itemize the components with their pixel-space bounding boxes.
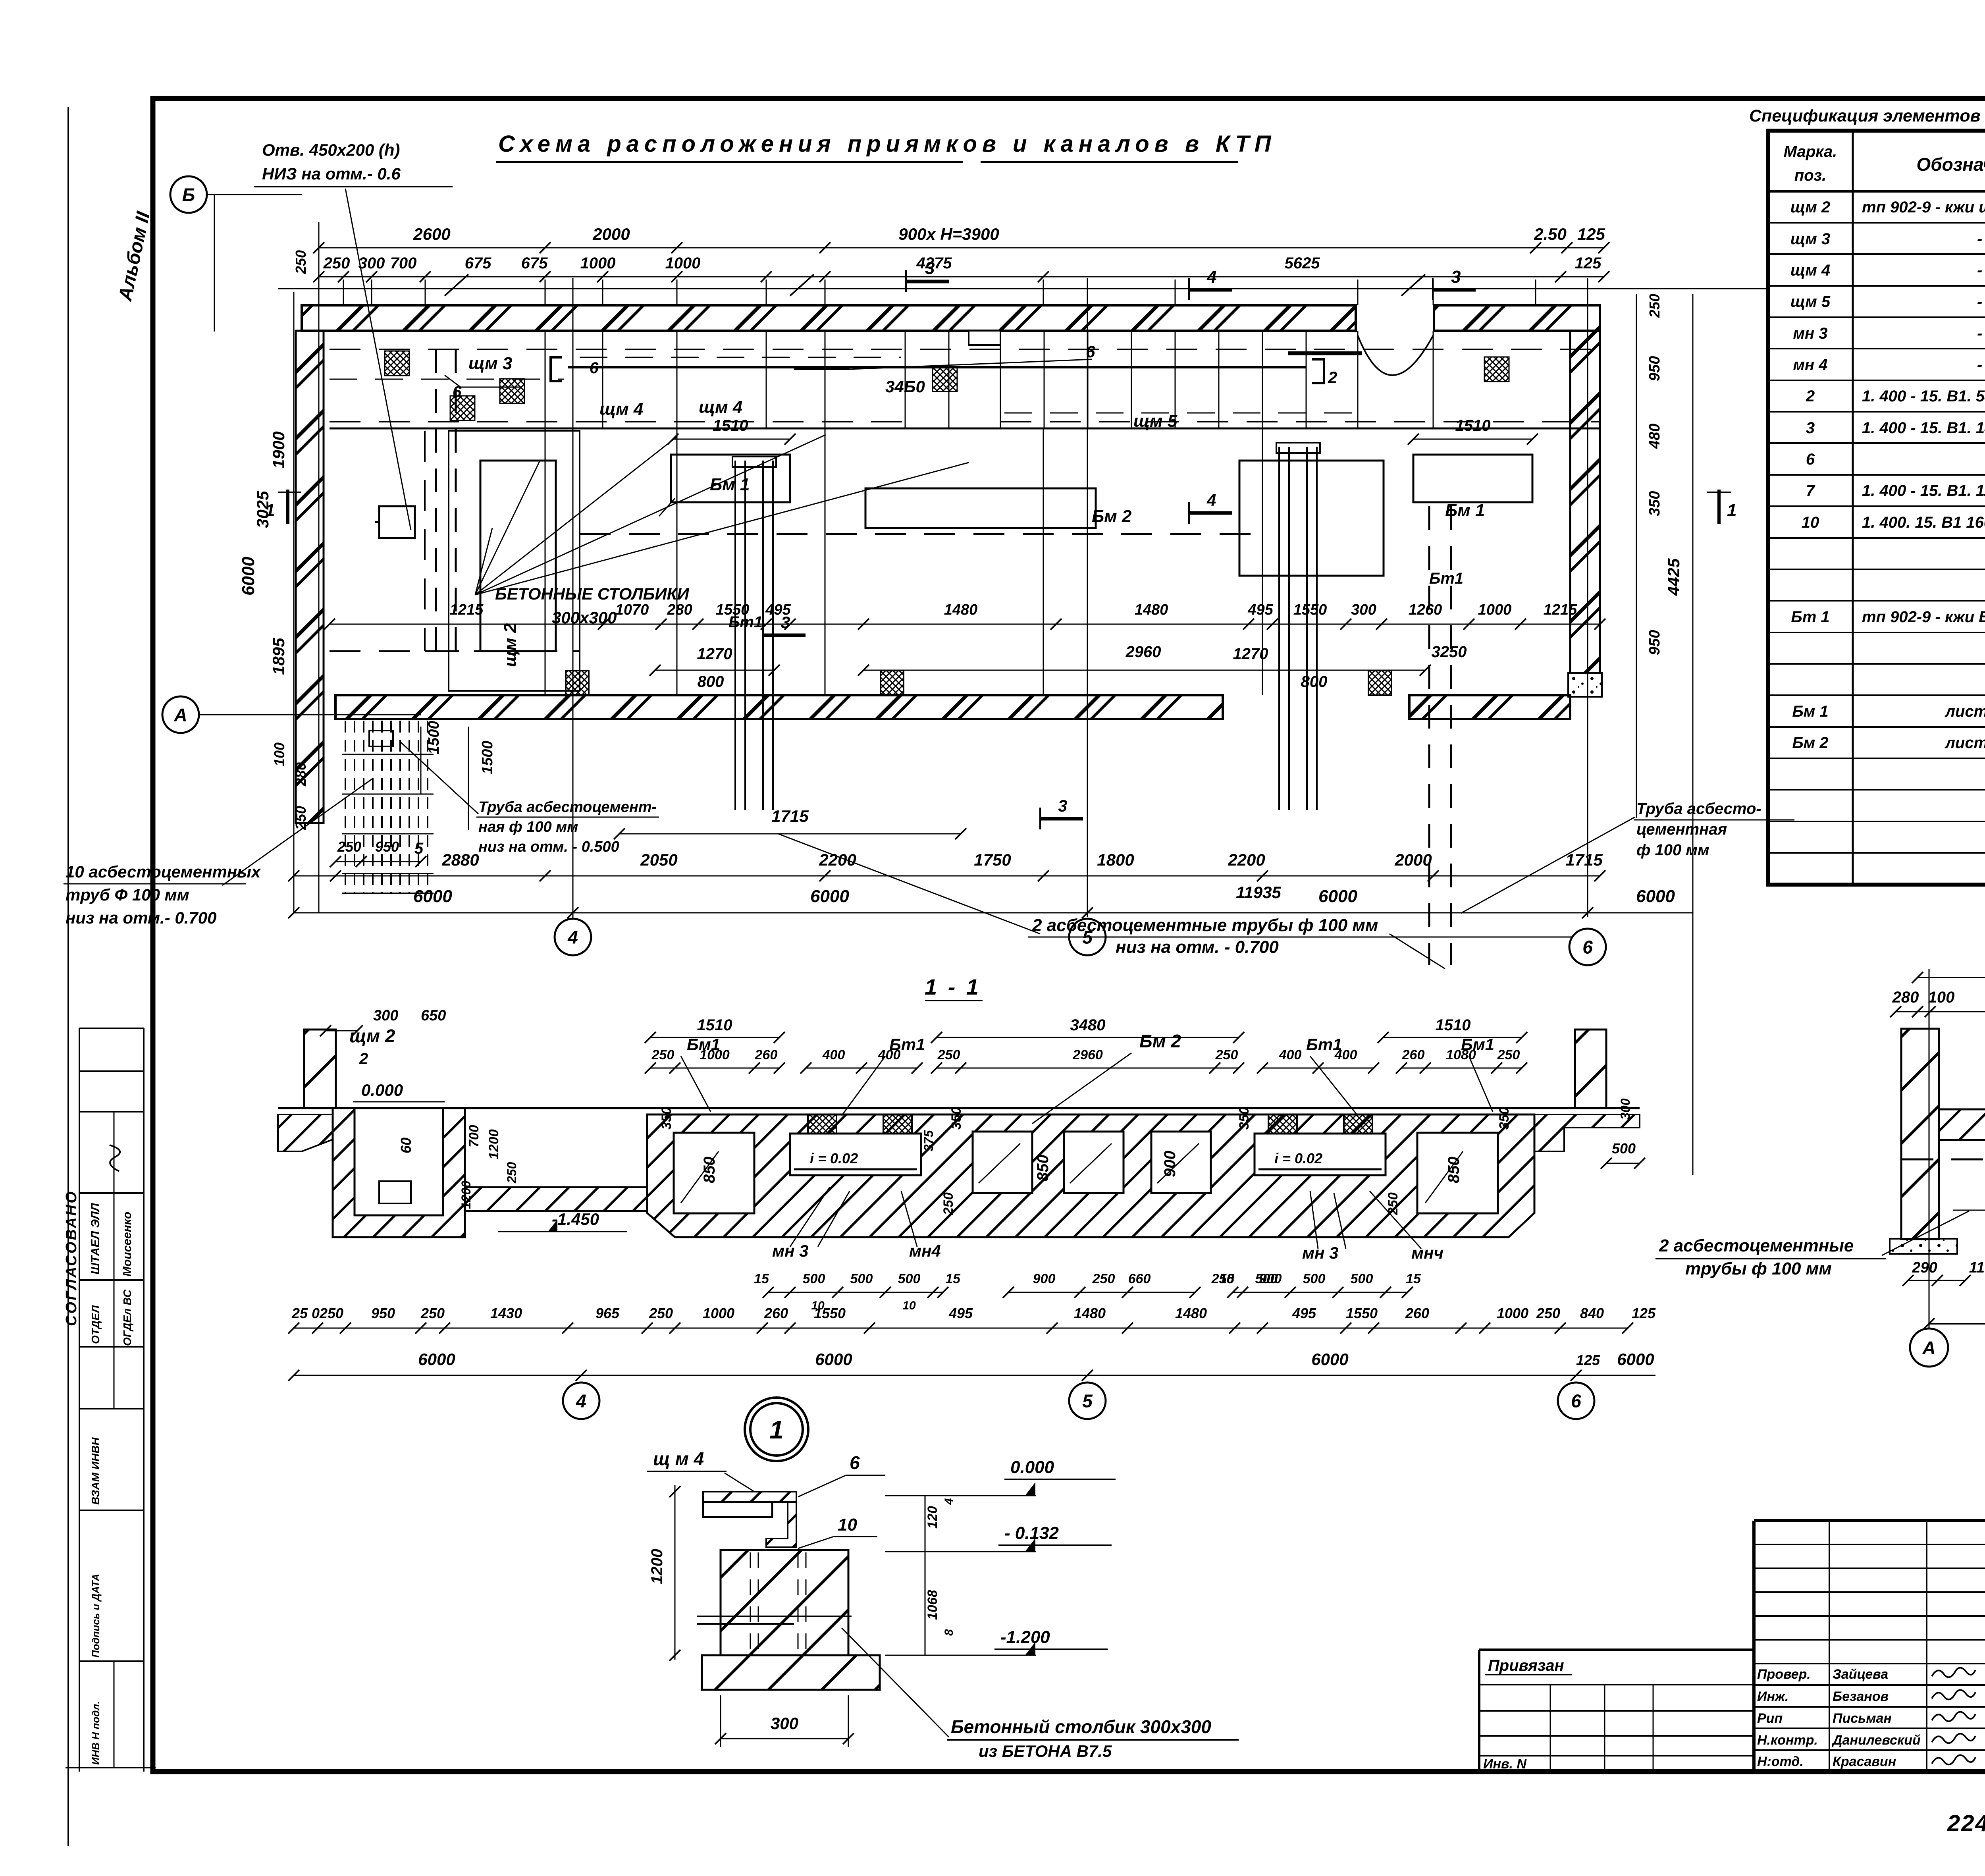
section mid pits white <box>973 1132 1032 1193</box>
svg-text:250: 250 <box>937 1047 960 1062</box>
svg-text:500: 500 <box>1255 1271 1278 1286</box>
svg-text:1900: 1900 <box>269 432 288 469</box>
svg-text:4: 4 <box>567 927 578 948</box>
svg-text:250: 250 <box>1536 1305 1560 1321</box>
svg-text:ная ф 100 мм: ная ф 100 мм <box>478 819 578 835</box>
svg-text:щм 2: щм 2 <box>1790 199 1830 216</box>
svg-text:260: 260 <box>764 1305 788 1321</box>
svg-text:250: 250 <box>1497 1047 1520 1062</box>
svg-text:Бетонный столбик 300х300: Бетонный столбик 300х300 <box>951 1716 1211 1737</box>
svg-text:Бм 2: Бм 2 <box>1792 734 1828 752</box>
svg-text:495: 495 <box>948 1305 973 1321</box>
svg-text:280: 280 <box>1892 989 1919 1006</box>
svg-text:1 - 1: 1 - 1 <box>925 974 981 999</box>
binding box <box>1479 1648 1754 1651</box>
dim 1715 bottom <box>619 833 961 835</box>
svg-text:400: 400 <box>1334 1047 1357 1062</box>
section bottom dim row small <box>768 1292 943 1293</box>
svg-text:1: 1 <box>769 1415 784 1444</box>
svg-text:Бм 1: Бм 1 <box>1792 703 1828 720</box>
svg-text:15: 15 <box>754 1271 769 1286</box>
svg-text:щ м 4: щ м 4 <box>653 1448 704 1469</box>
svg-text:1000: 1000 <box>700 1047 730 1062</box>
svg-text:1510: 1510 <box>697 1016 732 1034</box>
svg-text:3480: 3480 <box>1070 1016 1106 1034</box>
svg-text:мн 4: мн 4 <box>1793 356 1827 374</box>
svg-text:СОГЛАСОВАНО: СОГЛАСОВАНО <box>63 1190 80 1326</box>
svg-text:650: 650 <box>421 1007 446 1024</box>
svg-text:350: 350 <box>949 1107 964 1130</box>
section top dims row2 <box>650 1068 779 1069</box>
pipe cluster Bt1 left <box>734 461 736 810</box>
svg-text:10: 10 <box>838 1515 857 1535</box>
svg-text:Данилевский: Данилевский <box>1831 1733 1921 1748</box>
svg-text:4: 4 <box>1206 267 1216 287</box>
svg-text:2200: 2200 <box>1228 850 1265 869</box>
svg-text:1550: 1550 <box>1293 602 1327 618</box>
svg-text:1000: 1000 <box>580 255 616 272</box>
svg-text:700: 700 <box>390 255 417 272</box>
svg-text:1270: 1270 <box>697 645 732 663</box>
dashed pipe pair right <box>1428 506 1430 965</box>
svg-text:5: 5 <box>414 840 424 857</box>
svg-text:щм 4: щм 4 <box>599 399 643 419</box>
svg-text:Спецификация элементов к схеме: Спецификация элементов к схеме расположе… <box>1749 106 1985 125</box>
svg-text:1080: 1080 <box>1446 1047 1476 1062</box>
title block revision grid <box>1754 1544 1985 1545</box>
svg-text:3: 3 <box>1806 419 1815 437</box>
svg-text:Провер.: Провер. <box>1757 1667 1811 1682</box>
svg-text:Бм 2: Бм 2 <box>1139 1031 1181 1051</box>
svg-text:Бм 2: Бм 2 <box>1092 507 1132 526</box>
svg-text:6000: 6000 <box>815 1350 852 1369</box>
node detail channel web <box>766 1502 796 1547</box>
svg-text:800: 800 <box>1301 673 1328 690</box>
s22 floor slab <box>1939 1109 1985 1140</box>
svg-text:1. 400 - 15. В1. 110 - 10: 1. 400 - 15. В1. 110 - 10 <box>1862 482 1985 499</box>
svg-text:низ на отм. - 0.700: низ на отм. - 0.700 <box>1116 937 1279 957</box>
grille squares <box>385 351 409 376</box>
svg-text:500: 500 <box>1351 1271 1373 1286</box>
svg-text:2000: 2000 <box>1394 850 1432 869</box>
svg-text:4: 4 <box>942 1498 956 1505</box>
svg-text:1895: 1895 <box>269 638 288 675</box>
plan section mark 3 top <box>906 280 949 283</box>
svg-text:- кжи мн 3: - кжи мн 3 <box>1977 325 1985 342</box>
svg-text:ОГДЕл ВС: ОГДЕл ВС <box>121 1289 133 1346</box>
svg-text:2.50: 2.50 <box>1534 225 1567 243</box>
svg-text:1. 400 - 15. В1. 140 - 02: 1. 400 - 15. В1. 140 - 02 <box>1862 419 1985 437</box>
svg-text:НИЗ на отм.- 0.6: НИЗ на отм.- 0.6 <box>262 164 401 183</box>
door opening arc <box>1358 335 1433 375</box>
node dim 300 <box>721 1738 848 1739</box>
svg-text:700: 700 <box>466 1125 482 1147</box>
s22 bottom dims <box>1908 1280 1965 1281</box>
left pit inner step <box>379 1181 411 1203</box>
svg-text:3250: 3250 <box>1432 643 1467 661</box>
plan cut marks mid <box>763 634 806 637</box>
svg-text:660: 660 <box>1128 1271 1151 1286</box>
svg-text:1000: 1000 <box>1478 602 1512 618</box>
mn grilles left <box>808 1114 836 1134</box>
svg-text:250: 250 <box>337 839 361 855</box>
node detail column <box>721 1550 848 1655</box>
svg-text:ШТАЕЛ ЭЛЛ: ШТАЕЛ ЭЛЛ <box>89 1203 102 1274</box>
svg-text:1215: 1215 <box>1544 602 1577 618</box>
svg-text:щм 2: щм 2 <box>349 1026 395 1046</box>
svg-text:Марка.: Марка. <box>1784 143 1837 160</box>
svg-text:Моисеенко: Моисеенко <box>121 1212 134 1276</box>
svg-text:- кжи щм 4: - кжи щм 4 <box>1977 262 1985 279</box>
plan dashed horizontals mid <box>580 533 1262 535</box>
section right wall dim 500 <box>1606 1163 1640 1164</box>
svg-text:6: 6 <box>453 383 462 401</box>
section mark 1 right <box>1717 490 1721 524</box>
svg-text:260: 260 <box>1402 1047 1425 1062</box>
svg-text:4: 4 <box>576 1391 586 1411</box>
svg-text:500: 500 <box>1612 1140 1636 1157</box>
svg-text:965: 965 <box>595 1305 620 1321</box>
svg-text:6000: 6000 <box>413 887 452 906</box>
svg-text:675: 675 <box>521 255 548 272</box>
svg-text:250: 250 <box>323 255 350 272</box>
svg-text:400: 400 <box>878 1047 901 1062</box>
svg-text:1200: 1200 <box>486 1129 501 1159</box>
plan bottom chain row <box>294 875 1600 877</box>
svg-text:Зайцева: Зайцева <box>1833 1667 1888 1682</box>
svg-text:125: 125 <box>1575 255 1601 272</box>
svg-text:Б: Б <box>182 185 195 205</box>
svg-text:1: 1 <box>1727 501 1736 520</box>
svg-text:260: 260 <box>1405 1305 1429 1321</box>
svg-text:Бт 1: Бт 1 <box>1791 608 1829 626</box>
svg-text:10: 10 <box>1802 514 1819 531</box>
svg-text:15: 15 <box>1406 1271 1421 1286</box>
svg-text:350: 350 <box>1646 491 1663 516</box>
svg-text:1200: 1200 <box>648 1549 666 1584</box>
pipe cluster Bt1 right <box>1278 447 1280 810</box>
sheet trim line left <box>67 107 69 1846</box>
svg-text:900х Н=3900: 900х Н=3900 <box>898 225 999 243</box>
svg-text:щм 5: щм 5 <box>1790 293 1831 310</box>
s22 top dims row2 <box>1896 1011 1985 1012</box>
svg-text:300: 300 <box>373 1007 398 1024</box>
svg-text:850: 850 <box>701 1157 718 1183</box>
svg-text:480: 480 <box>1646 424 1663 449</box>
svg-text:250: 250 <box>319 1305 343 1321</box>
svg-text:2: 2 <box>1328 368 1337 387</box>
svg-text:из БЕТОНА В7.5: из БЕТОНА В7.5 <box>979 1742 1112 1760</box>
dim 1510 left <box>673 439 790 440</box>
svg-text:495: 495 <box>1292 1305 1316 1321</box>
plan long reference line <box>278 288 1767 289</box>
svg-text:800: 800 <box>698 673 724 690</box>
axis circle B <box>170 176 207 213</box>
section thin slab left of pit <box>278 1114 333 1151</box>
svg-text:Труба асбестоцемент-: Труба асбестоцемент- <box>478 799 657 816</box>
mn grilles right <box>1268 1114 1297 1134</box>
section pit white 850 right <box>1417 1133 1498 1213</box>
svg-text:Рип: Рип <box>1757 1711 1783 1726</box>
svg-text:1510: 1510 <box>713 417 748 434</box>
svg-text:1715: 1715 <box>771 807 809 825</box>
svg-text:1800: 1800 <box>1097 850 1134 869</box>
plan right wall footing <box>1568 673 1602 697</box>
svg-text:300: 300 <box>771 1714 798 1733</box>
svg-text:3: 3 <box>925 258 935 278</box>
svg-text:1000: 1000 <box>665 255 701 272</box>
svg-text:лист 17: лист 17 <box>1945 703 1985 720</box>
plan axis verticals <box>572 278 574 917</box>
channel bracket left <box>551 357 562 381</box>
svg-text:110: 110 <box>1969 1259 1985 1276</box>
plan top wall band <box>302 305 1356 331</box>
mid zone dashed channel rect <box>424 431 426 651</box>
section axes <box>563 1382 599 1419</box>
svg-text:трубы ф 100 мм: трубы ф 100 мм <box>1685 1259 1832 1278</box>
svg-text:3: 3 <box>1058 796 1067 815</box>
svg-text:Безанов: Безанов <box>1833 1689 1889 1704</box>
svg-text:950: 950 <box>375 839 399 855</box>
svg-text:260: 260 <box>755 1047 778 1062</box>
s22 pipe dash line <box>1902 1159 1985 1161</box>
plan top dimension row 2 <box>319 276 1604 278</box>
section bottom chain <box>294 1328 1628 1329</box>
svg-text:Подпись и ДАТА: Подпись и ДАТА <box>90 1574 102 1658</box>
svg-text:щм 4: щм 4 <box>1790 262 1830 279</box>
svg-text:950: 950 <box>371 1305 395 1321</box>
svg-text:1750: 1750 <box>974 850 1011 869</box>
svg-text:- кжи мн 4: - кжи мн 4 <box>1977 356 1985 374</box>
svg-text:15: 15 <box>1219 1271 1235 1286</box>
svg-text:6000: 6000 <box>1318 887 1357 906</box>
left stamp column grid <box>79 1028 80 1772</box>
s22 left wall <box>1901 1029 1939 1239</box>
section pit white 850 left <box>674 1133 754 1213</box>
section channel pit right <box>1255 1134 1386 1175</box>
section 6000 chain <box>294 1375 1655 1376</box>
svg-text:- 0.132: - 0.132 <box>1004 1523 1059 1543</box>
mid pit left dashed <box>449 431 580 691</box>
upper channel extra dashes <box>580 357 901 358</box>
svg-text:500: 500 <box>850 1271 873 1286</box>
svg-text:мн4: мн4 <box>909 1242 941 1260</box>
svg-text:15: 15 <box>945 1271 961 1286</box>
svg-text:6000: 6000 <box>239 557 258 596</box>
svg-text:2200: 2200 <box>819 850 856 869</box>
svg-text:675: 675 <box>465 255 491 272</box>
Bm2 beam <box>865 488 1096 528</box>
svg-text:250: 250 <box>293 250 309 274</box>
svg-text:1550: 1550 <box>1346 1305 1378 1321</box>
svg-text:0.000: 0.000 <box>361 1081 403 1099</box>
svg-text:280: 280 <box>667 602 692 618</box>
svg-text:i = 0.02: i = 0.02 <box>810 1150 858 1166</box>
svg-text:1480: 1480 <box>1074 1305 1106 1321</box>
svg-text:2960: 2960 <box>1125 643 1161 661</box>
svg-text:250: 250 <box>651 1047 675 1062</box>
svg-text:6000: 6000 <box>1636 887 1675 906</box>
svg-text:850: 850 <box>1034 1155 1052 1181</box>
plan bottom wall band <box>335 695 1223 719</box>
section lowered slab between <box>465 1187 647 1211</box>
svg-text:- кжи цм 3: - кжи цм 3 <box>1977 230 1985 248</box>
svg-text:1500: 1500 <box>479 740 496 774</box>
svg-text:щм 3: щм 3 <box>1790 230 1830 248</box>
svg-text:1500: 1500 <box>426 721 442 754</box>
svg-text:1550: 1550 <box>814 1305 846 1321</box>
svg-text:125: 125 <box>1576 1352 1600 1368</box>
section channel pit left <box>790 1134 921 1175</box>
svg-text:2880: 2880 <box>441 850 479 869</box>
svg-text:щм 2: щм 2 <box>501 623 520 667</box>
svg-text:375: 375 <box>921 1130 936 1151</box>
section left pit <box>333 1108 465 1237</box>
svg-text:500: 500 <box>1303 1271 1326 1286</box>
svg-text:2: 2 <box>359 1050 368 1068</box>
svg-text:6000: 6000 <box>418 1350 455 1369</box>
svg-text:250: 250 <box>1215 1047 1238 1062</box>
svg-text:250: 250 <box>1092 1271 1115 1286</box>
s22 axis line <box>1929 1323 1985 1325</box>
svg-text:1510: 1510 <box>1455 417 1491 434</box>
s22 left wall pad <box>1890 1239 1957 1254</box>
svg-text:10: 10 <box>902 1299 916 1312</box>
svg-text:250: 250 <box>505 1162 519 1184</box>
s22 axis circle A <box>1910 1328 1948 1367</box>
svg-text:ф 100 мм: ф 100 мм <box>1636 841 1709 859</box>
svg-text:5: 5 <box>1082 1391 1093 1411</box>
node detail channel top flange <box>703 1492 796 1502</box>
svg-text:щм 4: щм 4 <box>699 397 742 417</box>
svg-text:ИНВ Н подл.: ИНВ Н подл. <box>90 1701 102 1765</box>
svg-text:6: 6 <box>1571 1391 1581 1411</box>
svg-text:0.000: 0.000 <box>1010 1458 1054 1477</box>
section top dims <box>650 1037 779 1038</box>
upper channel bottom line <box>330 428 1600 430</box>
svg-text:Инж.: Инж. <box>1757 1689 1788 1704</box>
section ground line <box>278 1107 1640 1109</box>
svg-text:125: 125 <box>1632 1305 1656 1321</box>
svg-text:250: 250 <box>941 1192 956 1215</box>
right vertical dim chain <box>1636 294 1637 818</box>
plan top dimension row 1 <box>319 247 1604 249</box>
svg-text:500: 500 <box>803 1271 825 1286</box>
svg-text:6: 6 <box>1806 451 1815 468</box>
node detail plate <box>703 1502 772 1517</box>
svg-text:Бт1: Бт1 <box>1429 570 1463 587</box>
svg-text:290: 290 <box>1912 1259 1937 1276</box>
svg-text:350: 350 <box>1237 1107 1252 1130</box>
svg-text:1000: 1000 <box>703 1305 734 1321</box>
section mark 1 left <box>286 490 289 524</box>
concrete column symbols <box>566 671 589 695</box>
spec table columns <box>1852 131 1854 885</box>
svg-text:250: 250 <box>1386 1192 1401 1215</box>
svg-text:А: А <box>173 705 187 725</box>
svg-text:950: 950 <box>1646 630 1663 655</box>
svg-text:- кжи щм 5: - кжи щм 5 <box>1977 293 1985 310</box>
svg-text:495: 495 <box>1247 602 1273 618</box>
svg-text:5: 5 <box>1082 927 1093 948</box>
title block outer <box>1754 1519 1985 1522</box>
plan left wall <box>296 331 324 823</box>
svg-text:100: 100 <box>271 742 287 766</box>
svg-text:850: 850 <box>1445 1157 1463 1183</box>
svg-text:БЕТОННЫЕ СТОЛБИКИ: БЕТОННЫЕ СТОЛБИКИ <box>495 584 689 603</box>
plan section mark 3b top <box>1433 288 1476 292</box>
svg-text:1. 400 - 15. В1. 540 - 09: 1. 400 - 15. В1. 540 - 09 <box>1862 388 1985 405</box>
svg-text:300: 300 <box>1618 1098 1632 1120</box>
svg-text:2000: 2000 <box>592 225 630 243</box>
svg-text:300: 300 <box>1351 602 1376 618</box>
section right wall above ground <box>1575 1030 1606 1108</box>
svg-text:3: 3 <box>781 613 790 632</box>
svg-text:11935: 11935 <box>1236 883 1281 902</box>
leader fan to columns <box>475 461 540 595</box>
svg-text:Инв. N: Инв. N <box>1483 1756 1527 1772</box>
svg-text:4: 4 <box>1206 491 1216 509</box>
svg-text:25 0: 25 0 <box>291 1305 320 1321</box>
svg-text:900: 900 <box>1161 1151 1179 1177</box>
svg-text:Обозначение: Обозначение <box>1916 154 1985 175</box>
upper channel dashed lines <box>330 349 1600 350</box>
dim 1510 right <box>1413 439 1532 440</box>
svg-text:1068: 1068 <box>925 1590 940 1620</box>
svg-text:тп 902-9 - кжи Бт 1: тп 902-9 - кжи Бт 1 <box>1862 608 1985 626</box>
svg-text:1. 400. 15. В1 160 - 26: 1. 400. 15. В1 160 - 26 <box>1862 514 1985 531</box>
node detail rebar <box>697 1616 852 1617</box>
svg-text:1000: 1000 <box>1497 1305 1528 1321</box>
plan mid dim row <box>330 624 1600 625</box>
section left wall above ground <box>304 1030 336 1108</box>
svg-text:7: 7 <box>1806 482 1815 499</box>
svg-text:1715: 1715 <box>1565 850 1603 869</box>
plan vertical extension lines <box>343 280 344 305</box>
svg-text:Красавин: Красавин <box>1833 1754 1896 1769</box>
plan section mark 4 top <box>1189 288 1232 292</box>
svg-text:250: 250 <box>1646 294 1663 318</box>
svg-text:500: 500 <box>898 1271 921 1286</box>
svg-text:300: 300 <box>358 255 385 272</box>
svg-text:5625: 5625 <box>1285 255 1320 272</box>
spec table frame <box>1768 131 1985 885</box>
svg-text:950: 950 <box>1646 356 1663 381</box>
svg-text:мнч: мнч <box>1411 1244 1443 1262</box>
svg-text:Письман: Письман <box>1833 1711 1892 1726</box>
Bm1 beam left <box>671 455 790 502</box>
svg-text:2050: 2050 <box>640 850 677 869</box>
svg-text:Н.контр.: Н.контр. <box>1757 1733 1818 1748</box>
section main mass <box>647 1114 1534 1237</box>
plan bottom 6000 chain <box>294 912 1693 914</box>
svg-text:2 асбестоцементные: 2 асбестоцементные <box>1659 1236 1854 1255</box>
svg-text:низ на отм.- 0.700: низ на отм.- 0.700 <box>66 908 216 927</box>
dashed pipe pair left-mid <box>435 349 437 659</box>
svg-text:1200: 1200 <box>459 1181 473 1209</box>
svg-text:мн 3: мн 3 <box>1793 325 1827 342</box>
svg-text:1550: 1550 <box>716 602 750 618</box>
s22 top dims <box>1918 977 1985 978</box>
node detail slab <box>702 1655 880 1690</box>
plan inner solid rect left pit <box>480 461 556 651</box>
svg-text:труб Ф 100 мм: труб Ф 100 мм <box>66 885 189 904</box>
svg-text:Труба асбесто-: Труба асбесто- <box>1636 800 1761 817</box>
svg-text:Н:отд.: Н:отд. <box>1757 1754 1804 1769</box>
svg-text:цементная: цементная <box>1636 821 1727 838</box>
svg-text:2600: 2600 <box>413 225 450 243</box>
svg-text:6: 6 <box>850 1452 860 1473</box>
